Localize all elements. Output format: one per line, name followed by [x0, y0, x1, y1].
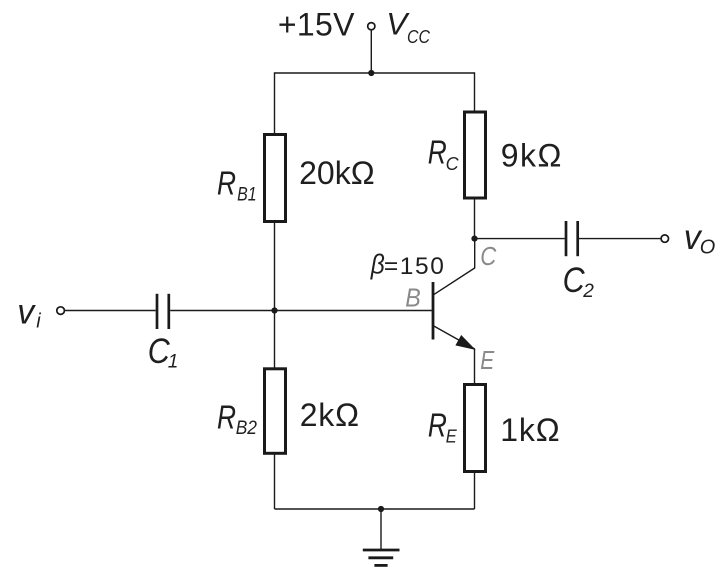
resistor RB1	[265, 135, 286, 222]
label C1	[148, 332, 179, 372]
label beta	[370, 249, 446, 281]
svg-text:R: R	[428, 406, 447, 443]
ground	[363, 509, 400, 565]
svg-text:C: C	[563, 261, 586, 300]
svg-text:=150: =150	[384, 253, 446, 280]
label +15V	[278, 7, 355, 43]
resistor RC	[465, 112, 486, 198]
svg-text:O: O	[700, 237, 716, 259]
label C	[480, 241, 496, 271]
svg-text:CC: CC	[407, 27, 431, 47]
wire top rail	[275, 72, 475, 74]
capacitor C1	[157, 294, 169, 329]
wire left column lower	[274, 453, 276, 509]
label B	[405, 282, 421, 312]
wire output left	[475, 238, 565, 240]
resistor RE	[465, 385, 486, 472]
terminal vo	[661, 235, 668, 242]
svg-text:+15V: +15V	[278, 7, 355, 43]
svg-text:20kΩ: 20kΩ	[299, 155, 375, 191]
wire output right	[579, 238, 661, 240]
svg-text:B1: B1	[237, 185, 257, 206]
svg-text:2kΩ: 2kΩ	[300, 397, 360, 433]
svg-text:R: R	[428, 133, 447, 170]
svg-text:B2: B2	[236, 418, 258, 439]
wire input left	[65, 310, 156, 312]
resistor RB2	[265, 369, 286, 454]
wire bottom rail	[275, 508, 475, 510]
node VCC junction	[368, 70, 374, 76]
capacitor C2	[566, 221, 578, 256]
label 2kOhm	[300, 397, 360, 433]
terminal VCC	[368, 23, 375, 30]
svg-text:9kΩ: 9kΩ	[501, 137, 563, 173]
wire right column upper	[474, 72, 476, 112]
wire emitter lead	[474, 349, 476, 385]
node ground junction	[378, 506, 384, 512]
svg-text:1kΩ: 1kΩ	[500, 412, 560, 448]
label RB2	[217, 399, 257, 439]
wire base	[170, 310, 432, 312]
svg-text:v: v	[17, 292, 36, 331]
label RE	[428, 406, 457, 446]
label RB1	[217, 165, 257, 206]
wire left column middle	[274, 222, 276, 369]
wire collector column	[474, 198, 476, 239]
svg-text:B: B	[405, 282, 421, 312]
svg-text:i: i	[36, 310, 41, 332]
svg-text:E: E	[480, 345, 495, 375]
transistor Q1	[433, 268, 475, 349]
svg-text:1: 1	[168, 352, 179, 373]
wire VCC lead	[370, 30, 372, 73]
label 20kOhm	[299, 155, 375, 191]
node base junction	[271, 307, 277, 313]
label E	[480, 345, 495, 375]
wire collector lead	[474, 239, 476, 269]
svg-text:2: 2	[582, 281, 594, 302]
label VCC	[386, 6, 431, 48]
wire emitter column lower	[474, 472, 476, 510]
terminal vi	[57, 307, 65, 315]
label vi	[17, 292, 41, 332]
svg-text:C: C	[480, 241, 496, 271]
label 1kOhm	[500, 412, 560, 448]
svg-text:C: C	[446, 153, 460, 174]
svg-text:E: E	[446, 425, 458, 446]
label 9kOhm	[501, 137, 563, 173]
node collector junction	[471, 236, 477, 242]
svg-text:R: R	[217, 165, 236, 202]
label RC	[428, 133, 459, 174]
label C2	[563, 261, 595, 302]
svg-text:β: β	[370, 249, 385, 280]
wire left column upper	[274, 72, 276, 135]
svg-text:R: R	[217, 399, 236, 436]
label vo	[684, 218, 716, 259]
